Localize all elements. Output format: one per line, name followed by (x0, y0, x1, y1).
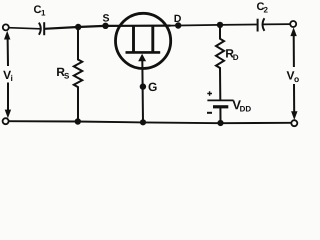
resistor RD (216, 25, 224, 100)
terminal: output bottom (open circle) (291, 120, 297, 126)
transistor Q1 (JFET) circle (116, 13, 171, 68)
node: junction dot at Rs branch (75, 24, 81, 30)
transistor Q1 gate arrow head (138, 54, 146, 62)
label C2 (257, 2, 264, 10)
Vo indicator arrow down (293, 84, 295, 114)
resistor RS (74, 27, 82, 122)
transistor Q1 left leg (source contact) (132, 26, 135, 52)
battery plus sign (207, 91, 212, 96)
label RD (226, 49, 234, 57)
wire: top rail left segment (input terminal to C1) (9, 28, 41, 29)
wire: gate lead down to bottom rail (141, 58, 144, 122)
label D (175, 15, 181, 22)
label Vo (287, 71, 295, 79)
label S (103, 14, 109, 21)
wire: top rail C1 to source S and into transistor (44, 26, 170, 29)
node: junction dot at RD branch (217, 22, 223, 28)
wire: battery to bottom rail (219, 107, 221, 123)
Vo indicator arrow up (290, 27, 296, 36)
terminal: output top (open circle) (290, 21, 296, 27)
battery minus sign (207, 112, 212, 114)
terminal: input bottom (open circle) (3, 118, 9, 124)
label C1 (34, 5, 41, 13)
node D: dot at drain (175, 22, 181, 28)
node: junction dot battery at bottom rail (217, 120, 223, 126)
capacitor C1 (39, 22, 44, 35)
Vi indicator arrow up (4, 31, 10, 40)
node: junction dot Rs at bottom rail (75, 118, 81, 124)
node G: gate dot (140, 83, 146, 89)
battery VDD negative plate (213, 105, 228, 108)
transistor Q1 channel bar (126, 51, 161, 54)
node S: dot at source (102, 23, 108, 29)
wire: top rail drain side (circle to C2) (171, 25, 257, 26)
terminal: input top (open circle) (3, 24, 9, 30)
battery VDD positive plate (207, 99, 233, 101)
transistor Q1 right leg (drain contact) (151, 26, 154, 52)
wire: bottom rail (8, 121, 292, 123)
capacitor C2 (258, 18, 265, 31)
label VDD (232, 100, 240, 109)
label G (148, 83, 156, 92)
label RS (57, 68, 65, 76)
Vi indicator arrow down (7, 83, 9, 113)
wire: top rail C2 to output terminal (263, 23, 291, 25)
label Vi (3, 71, 11, 79)
node: junction dot gate at bottom rail (140, 119, 146, 125)
